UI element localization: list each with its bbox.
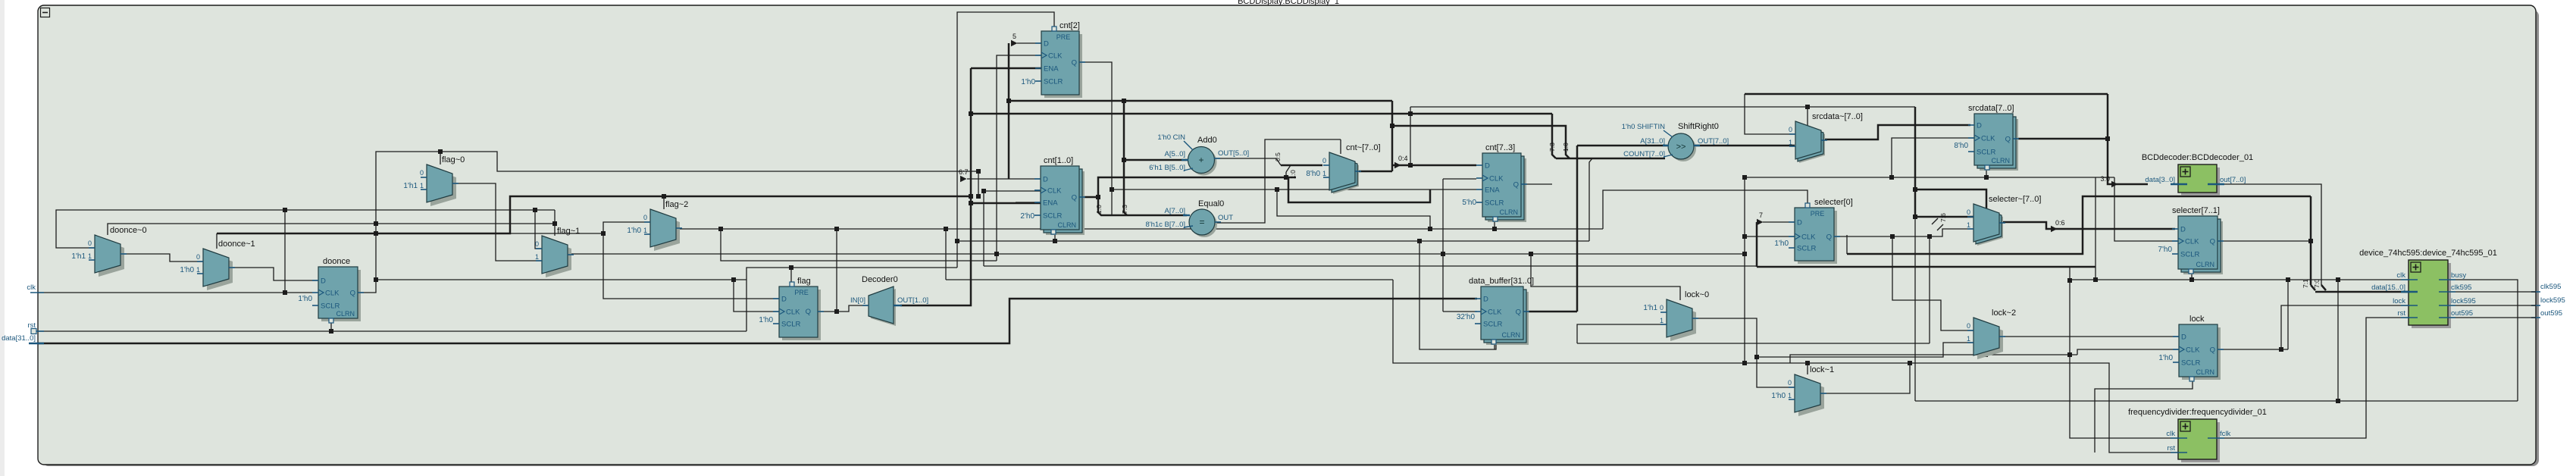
junction J25 at 1483,133 xyxy=(1122,99,1126,103)
svg-text:3:0: 3:0 xyxy=(2100,175,2110,183)
svg-text:doonce: doonce xyxy=(323,257,350,266)
wire lock~2 select riser xyxy=(1985,322,1986,355)
svg-text:PRE: PRE xyxy=(794,289,809,296)
junction J61 at 3019,369 xyxy=(2286,277,2290,282)
ripper bit5 cnt2 xyxy=(1011,40,1018,46)
svg-text:1'h0: 1'h0 xyxy=(2158,354,2173,362)
junction J50 at 3085,529 xyxy=(2336,399,2340,403)
wire data merge a xyxy=(2311,285,2315,290)
wire srcdata clrn riser xyxy=(1986,168,1987,177)
svg-text:lock~0: lock~0 xyxy=(1685,290,1709,299)
svg-text:7: 7 xyxy=(1759,211,1763,219)
junction J0 at 376,386 xyxy=(283,290,287,295)
svg-text:1: 1 xyxy=(1788,392,1792,399)
wire equal branch xyxy=(1277,189,1430,229)
wire selecter0 Q to bus xyxy=(1846,235,1848,254)
svg-text:1'h0: 1'h0 xyxy=(1774,240,1789,248)
svg-text:data[15..0]: data[15..0] xyxy=(2371,283,2405,292)
svg-text:Q: Q xyxy=(2210,238,2215,246)
wire selecter return a xyxy=(1847,196,2311,254)
svg-text:CLRN: CLRN xyxy=(2196,261,2214,268)
svg-text:7:3: 7:3 xyxy=(1121,205,1128,214)
wire databuffer clrn xyxy=(1494,340,1495,349)
svg-text:1:0: 1:0 xyxy=(1562,142,1570,152)
wire lock~1 out xyxy=(1820,363,2178,453)
wire fd clk riser xyxy=(2070,355,2178,438)
junction J7 at 876,259 xyxy=(662,194,666,199)
svg-text:SCLR: SCLR xyxy=(321,302,340,311)
svg-text:clk595: clk595 xyxy=(2540,283,2561,291)
svg-text:OUT[1..0]: OUT[1..0] xyxy=(897,296,928,305)
wire flag~2 select riser xyxy=(663,196,665,209)
svg-text:Q: Q xyxy=(1826,233,1832,242)
flip-flop data_buffer[31..0] xyxy=(1486,292,1529,345)
svg-text:D: D xyxy=(1483,296,1488,304)
svg-text:CLK: CLK xyxy=(1981,135,1995,143)
wire data input bus xyxy=(38,299,1477,343)
mux lock~1 xyxy=(1798,378,1824,416)
wire flag~0 select riser xyxy=(440,152,441,164)
shifter ShiftRight0 xyxy=(1670,136,1696,161)
junction J15 at 1281,150 xyxy=(969,111,973,116)
ripper 0:6 selecter~ xyxy=(2051,226,2058,232)
svg-text:flag~0: flag~0 xyxy=(442,155,465,164)
svg-text:SCLR: SCLR xyxy=(1977,149,1995,157)
svg-text:lock~1: lock~1 xyxy=(1810,365,1834,374)
svg-text:D: D xyxy=(2180,226,2186,234)
junction J23 at 1449,260 xyxy=(1096,195,1100,199)
wire lock clrn path xyxy=(2095,380,2193,453)
svg-text:0: 0 xyxy=(420,169,424,177)
svg-text:1:0: 1:0 xyxy=(1289,170,1297,179)
wire flag Q to decoder xyxy=(818,305,869,312)
svg-text:SCLR: SCLR xyxy=(2180,251,2199,259)
svg-text:1: 1 xyxy=(88,252,92,260)
svg-text:1'h1: 1'h1 xyxy=(71,252,86,261)
svg-text:7:3: 7:3 xyxy=(1548,142,1556,152)
wire equal out riser xyxy=(1215,139,1341,223)
wire selecter71 clk riser xyxy=(2114,177,2178,241)
svg-text:doonce~1: doonce~1 xyxy=(218,240,255,249)
wire flag~1 out xyxy=(568,253,1745,255)
comparator Equal0 xyxy=(1191,211,1217,237)
wire cnt10 clk stub xyxy=(984,190,1041,192)
wire cnt~ in0 feed xyxy=(1281,164,1322,167)
wire catenate diag a xyxy=(1932,218,1938,224)
junction J28 at 1837,166 xyxy=(1390,124,1394,128)
wire clrn bus left xyxy=(217,196,971,233)
wire data buffer clk stub xyxy=(1443,311,1477,312)
svg-text:PRE: PRE xyxy=(1811,210,1825,218)
svg-text:6:7: 6:7 xyxy=(959,168,969,176)
junction J4 at 496,308 xyxy=(374,231,378,236)
wire cnt feed bus vertical xyxy=(1008,43,1010,179)
svg-text:IN[0]: IN[0] xyxy=(850,296,865,305)
wire clk line right xyxy=(984,265,1757,267)
junction J12 at 1248,302 xyxy=(944,227,948,231)
svg-text:Q: Q xyxy=(2210,346,2215,355)
wire cnt10 rip riser xyxy=(1285,172,1287,177)
wire srcdata~ out xyxy=(1820,125,1970,139)
svg-text:ENA: ENA xyxy=(1043,199,1058,208)
mux lock~0 xyxy=(1670,303,1696,341)
svg-text:1: 1 xyxy=(1322,170,1326,177)
wire busy loop riser xyxy=(2337,280,2339,401)
wire cnt73 ena feed xyxy=(1112,189,1476,190)
junction J39 at 2302,312 xyxy=(1742,234,1747,239)
wire busy loop xyxy=(2448,280,2518,401)
svg-text:1: 1 xyxy=(1967,221,1970,229)
wire flag~2 out xyxy=(676,228,946,230)
mux flag~2 xyxy=(654,213,680,251)
svg-text:BCDDisplay:BCDDisplay_1: BCDDisplay:BCDDisplay_1 xyxy=(1238,0,1339,6)
wire cnt10 Q down equal xyxy=(1098,197,1187,215)
svg-text:A[7..0]: A[7..0] xyxy=(1165,207,1185,215)
collapse icon xyxy=(41,8,50,17)
wire rst riser pre xyxy=(747,268,957,331)
wire lock~0 in1 elbow xyxy=(1577,324,1667,343)
svg-text:out595: out595 xyxy=(2540,309,2562,318)
wire bcd input line xyxy=(1745,93,2108,96)
svg-text:1'h0: 1'h0 xyxy=(627,227,641,235)
svg-text:CLRN: CLRN xyxy=(336,310,355,318)
wire cnt increment bus xyxy=(1009,100,1392,102)
wire clk net line234 xyxy=(1743,177,2114,178)
junction J5 at 581,200 xyxy=(438,149,443,154)
wire clk riser cnt xyxy=(997,55,1041,261)
flip-flop selecter[7..1] xyxy=(2183,221,2223,274)
junction J2 at 437,437 xyxy=(329,329,333,334)
wire cnt2 ena feed xyxy=(971,67,1041,70)
svg-text:D: D xyxy=(1977,122,1982,130)
wire cnt10 rip diag xyxy=(1286,165,1291,172)
svg-text:Q: Q xyxy=(350,290,355,298)
svg-text:Q: Q xyxy=(2005,136,2011,144)
svg-text:D: D xyxy=(1485,162,1490,171)
wire add0 join diag xyxy=(1276,158,1281,165)
junction J9 at 1044,353 xyxy=(789,265,793,270)
svg-text:Q: Q xyxy=(806,308,811,316)
wire selecter71 bus down xyxy=(2310,196,2312,285)
wire srcdata~ in0 feed xyxy=(1745,94,1795,134)
svg-text:5: 5 xyxy=(1013,33,1016,40)
svg-text:data_buffer[31..0]: data_buffer[31..0] xyxy=(1469,277,1534,286)
mux flag~1 xyxy=(546,240,571,277)
svg-text:0: 0 xyxy=(1322,157,1326,164)
svg-text:>>: >> xyxy=(1676,142,1686,152)
svg-text:1'h0: 1'h0 xyxy=(298,295,312,303)
junction J16 at 1281,259 xyxy=(969,194,973,199)
junction J38 at 2302,234 xyxy=(1742,175,1747,180)
svg-text:lock: lock xyxy=(2189,315,2205,324)
svg-text:D: D xyxy=(1044,40,1049,49)
junction J62 at 732,295 xyxy=(552,221,557,226)
wire flag~0 out xyxy=(452,183,542,261)
wire cnt73 Q out xyxy=(1520,183,1552,185)
svg-text:CLRN: CLRN xyxy=(1499,208,1518,216)
svg-text:srcdata~[7..0]: srcdata~[7..0] xyxy=(1812,112,1863,121)
svg-text:BCDdecoder:BCDdecoder_01: BCDdecoder:BCDdecoder_01 xyxy=(2142,153,2253,162)
svg-text:D: D xyxy=(2181,334,2186,342)
wire selecter~ chain xyxy=(1914,107,1917,217)
svg-text:1'h0 SHIFTIN: 1'h0 SHIFTIN xyxy=(1622,123,1665,131)
junction J65 at 796,308 xyxy=(601,231,606,236)
wire bcd input drop xyxy=(2108,94,2148,184)
wire flag D feed xyxy=(603,233,779,299)
svg-text:1: 1 xyxy=(643,227,647,234)
wire cnt10 ena stub xyxy=(1016,202,1041,203)
svg-text:1'h0: 1'h0 xyxy=(1771,392,1786,400)
svg-text:CLRN: CLRN xyxy=(1501,331,1520,339)
svg-text:cnt[2]: cnt[2] xyxy=(1060,21,1080,30)
flip-flop cnt[1..0] xyxy=(1046,171,1085,235)
svg-text:ENA: ENA xyxy=(1485,186,1500,195)
junction J46 at 2527,250 xyxy=(1913,187,1917,192)
wire selecter71 clrn riser xyxy=(2191,271,2193,280)
svg-text:CLK: CLK xyxy=(1489,175,1504,183)
wire lock clk riser xyxy=(2077,349,2179,355)
svg-text:ShiftRight0: ShiftRight0 xyxy=(1678,122,1719,131)
wire cnt~ select riser xyxy=(1340,139,1341,154)
wire selecter bus drop xyxy=(2095,177,2096,280)
svg-text:7:6: 7:6 xyxy=(1939,213,1947,222)
wire out595 out xyxy=(2448,317,2536,318)
junction J33 at 1887,302 xyxy=(1428,227,1432,231)
svg-text:2'h0: 2'h0 xyxy=(1020,212,1034,221)
wire selecter~ in0 feed xyxy=(1915,216,1973,218)
svg-text:COUNT[7..0]: COUNT[7..0] xyxy=(1623,150,1665,158)
svg-text:CLK: CLK xyxy=(1801,233,1816,242)
svg-text:data[31..0]: data[31..0] xyxy=(2,334,36,343)
junction J17 at 1281,268 xyxy=(969,201,973,205)
svg-text:PRE: PRE xyxy=(1056,33,1071,41)
junction J44 at 2496,234 xyxy=(1889,175,1894,180)
wire ena long line xyxy=(1393,280,1910,363)
junction J52 at 2621,234 xyxy=(1984,175,1989,180)
svg-text:D: D xyxy=(1797,219,1802,227)
wire doonceq drop xyxy=(978,171,979,196)
wire doonce~0 select line xyxy=(108,224,555,235)
svg-text:0: 0 xyxy=(643,214,647,221)
junction J63 at 1392,318 xyxy=(1053,239,1057,243)
wire selecter~ out bus xyxy=(2002,222,2175,229)
junction J3 at 496,295 xyxy=(374,221,378,226)
svg-text:1: 1 xyxy=(1967,335,1970,343)
junction J10 at 1104,411 xyxy=(834,309,839,314)
wire srcdata~ select riser xyxy=(1807,107,1808,126)
svg-text:OUT[7..0]: OUT[7..0] xyxy=(1698,137,1729,146)
svg-text:=: = xyxy=(1199,217,1204,227)
svg-text:D: D xyxy=(321,277,326,286)
junction J11 at 1104,302 xyxy=(834,227,839,231)
svg-text:OUT: OUT xyxy=(1218,214,1233,222)
wire decoder out bus xyxy=(900,68,971,305)
wire fclk riser upper xyxy=(2069,267,2071,355)
wire cnt73 clk feed xyxy=(1443,178,1476,180)
svg-text:8'h1c B[7..0]: 8'h1c B[7..0] xyxy=(1145,221,1185,229)
svg-text:1'h0 CIN: 1'h0 CIN xyxy=(1157,133,1185,142)
svg-text:0: 0 xyxy=(535,240,539,248)
svg-text:D: D xyxy=(1043,176,1048,184)
svg-text:CLK: CLK xyxy=(1488,308,1502,317)
svg-text:CLK: CLK xyxy=(1047,187,1062,196)
junction J53 at 2731,468 xyxy=(2067,352,2072,357)
wire clk595 out xyxy=(2448,291,2536,293)
svg-text:Decoder0: Decoder0 xyxy=(862,275,898,284)
svg-text:flag~1: flag~1 xyxy=(557,227,580,236)
wire ena long left xyxy=(946,279,1393,280)
svg-text:7:0: 7:0 xyxy=(2313,279,2321,288)
wire cnt10 Q up xyxy=(1098,177,1296,197)
wire chain lower xyxy=(1914,217,1916,401)
wire flag PRE riser xyxy=(790,268,792,282)
wire cnt73 clrn riser xyxy=(1494,221,1495,228)
junction J14 at 1263,318 xyxy=(955,239,959,243)
wire shiftright a bus xyxy=(1577,145,1667,147)
svg-text:7'h0: 7'h0 xyxy=(2158,246,2172,254)
junction J29 at 1861,150 xyxy=(1408,111,1413,116)
svg-text:32'h0: 32'h0 xyxy=(1457,313,1476,321)
junction J27 at 1697,234 xyxy=(1284,175,1288,180)
flip-flop cnt[2] xyxy=(1044,34,1082,98)
wire lock~2 in1 feed xyxy=(1757,343,1973,357)
svg-text:SCLR: SCLR xyxy=(1483,321,1502,329)
junction J22 at 1331,133 xyxy=(1006,99,1011,103)
green box frequencydivider xyxy=(2181,422,2220,462)
svg-text:A[31..0]: A[31..0] xyxy=(1640,137,1665,146)
svg-text:CLRN: CLRN xyxy=(1057,221,1076,229)
junction J31 at 1873,318 xyxy=(1417,239,1422,243)
junction J41 at 2302,479 xyxy=(1742,361,1747,365)
wire lock~0 out xyxy=(1692,318,1795,387)
svg-text:1'h0: 1'h0 xyxy=(180,266,194,274)
junction J47 at 2546,312 xyxy=(1927,234,1932,239)
green box device_74hc595 xyxy=(2412,263,2451,328)
junction J42 at 2385,141 xyxy=(1805,105,1810,109)
svg-text:SCLR: SCLR xyxy=(1797,245,1816,253)
svg-text:SCLR: SCLR xyxy=(2181,359,2200,368)
junction J48 at 2527,286 xyxy=(1913,215,1917,219)
svg-text:cnt[7..3]: cnt[7..3] xyxy=(1485,143,1515,152)
junction J20 at 1298,252 xyxy=(981,189,986,193)
wire flag~1 in0 riser xyxy=(535,210,542,249)
junction J43 at 2385,479 xyxy=(1805,361,1810,365)
svg-text:0: 0 xyxy=(88,240,92,247)
junction J40 at 2302,335 xyxy=(1742,252,1747,256)
wire doonce clrn xyxy=(330,321,332,331)
wire flag Q riser xyxy=(836,229,837,312)
flip-flop selecter[0] xyxy=(1798,211,1837,264)
wire clk mid riser xyxy=(983,191,984,266)
mux doonce~0 xyxy=(99,239,124,277)
wire device lock feed xyxy=(2281,305,2409,349)
wire clrn net xyxy=(957,240,1589,242)
junction J6 at 706,277 xyxy=(533,208,537,212)
svg-text:Q: Q xyxy=(1513,181,1519,189)
wire cnt10 D stub xyxy=(967,178,1041,180)
wire bcd out xyxy=(2218,184,2321,285)
svg-text:busy: busy xyxy=(2451,271,2466,280)
wire doonce~0 out xyxy=(121,254,203,261)
junction J32 at 1904,335 xyxy=(1441,252,1445,256)
wire count bus xyxy=(1556,158,1665,160)
svg-text:clk: clk xyxy=(2396,271,2405,280)
wire count tap riser xyxy=(1589,158,1592,241)
wire clk riser left xyxy=(284,210,286,293)
junction J45 at 2497,312 xyxy=(1890,234,1895,239)
wire catenate diag b xyxy=(1937,224,1943,230)
svg-text:out595: out595 xyxy=(2451,309,2473,318)
wire rst input xyxy=(38,330,747,332)
flip-flop flag xyxy=(782,290,821,340)
wire add0 out xyxy=(1213,158,1276,159)
svg-text:1: 1 xyxy=(1789,139,1792,146)
mux selecter~[7..0] xyxy=(1977,208,2003,246)
svg-text:D: D xyxy=(781,296,787,304)
svg-text:+: + xyxy=(1198,155,1203,165)
wire doonce~1 out xyxy=(229,268,318,280)
wire count catenate hi xyxy=(1552,114,1556,158)
wire ena bus ff xyxy=(971,202,1041,205)
wire ena left riser xyxy=(945,228,947,280)
junction J24 at 1467,250 xyxy=(1110,187,1114,192)
svg-text:ENA: ENA xyxy=(1044,65,1059,74)
svg-text:lock: lock xyxy=(2393,297,2405,305)
svg-text:selecter~[7..0]: selecter~[7..0] xyxy=(1989,195,2041,204)
wire clk gate riser xyxy=(721,229,997,261)
wire lock q riser xyxy=(2287,280,2289,349)
wire shiftright out xyxy=(1693,145,1795,147)
svg-text:1'h0: 1'h0 xyxy=(1021,78,1035,86)
junction J60 at 3085,369 xyxy=(2336,277,2340,282)
svg-text:CLRN: CLRN xyxy=(1991,157,2010,164)
junction J21 at 1315,335 xyxy=(994,252,999,256)
wire cnt73 clk riser xyxy=(1442,179,1444,312)
svg-text:CLK: CLK xyxy=(1048,52,1063,61)
junction J54 at 2765,369 xyxy=(2093,277,2098,282)
wire add0 A feed xyxy=(1124,159,1188,161)
flip-flop doonce xyxy=(321,270,361,321)
mux lock~2 xyxy=(1977,321,2003,359)
svg-text:flag~2: flag~2 xyxy=(665,200,688,209)
svg-text:Q: Q xyxy=(1516,308,1521,317)
svg-text:data[3..0]: data[3..0] xyxy=(2145,176,2175,184)
svg-text:clk: clk xyxy=(2166,430,2175,438)
wire cnt10 Q stub xyxy=(1083,196,1098,199)
wire cnt out count line xyxy=(1392,126,1570,158)
junction J35 at 1972,302 xyxy=(1492,227,1497,231)
wire flagq lockline xyxy=(946,228,1603,230)
wire lock net mid xyxy=(1577,343,1930,344)
ripper 6:7 cnt10 xyxy=(960,176,967,182)
wire pre net2 xyxy=(1603,190,1808,229)
wire device data bus xyxy=(2315,291,2409,293)
junction J49 at 2318,471 xyxy=(1754,355,1759,359)
wire selecter0 Q xyxy=(1834,229,1973,236)
svg-text:CLK: CLK xyxy=(2186,346,2200,355)
svg-text:SCLR: SCLR xyxy=(1485,199,1504,208)
svg-text:0: 0 xyxy=(1967,208,1970,216)
wire lock~2 out xyxy=(2004,336,2179,337)
wire databuffer q stub xyxy=(1523,311,1577,313)
wire clk drop bottom xyxy=(1744,177,1745,363)
svg-text:device_74hc595:device_74hc595_: device_74hc595:device_74hc595_01 xyxy=(2359,249,2497,258)
svg-text:0:5: 0:5 xyxy=(1274,152,1282,161)
svg-text:Q: Q xyxy=(1072,194,1077,202)
wire doonce Q feedback xyxy=(358,152,978,293)
wire srcdata q xyxy=(2013,138,2108,140)
junction J55 at 2781,183 xyxy=(2105,136,2110,141)
